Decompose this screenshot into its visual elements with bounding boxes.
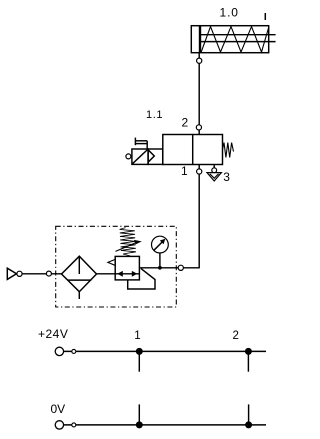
- port 1 label: [181, 164, 188, 178]
- svg-text:2: 2: [182, 116, 189, 130]
- node: source outlet: [17, 271, 22, 276]
- node: service unit outlet: [178, 265, 183, 270]
- wire stub node 2 down: [247, 351, 249, 371]
- port 3 label: [223, 170, 230, 184]
- junction node 2 on 0V: [245, 421, 252, 428]
- wire filter to regulator: [97, 273, 116, 275]
- pilot box: [148, 149, 163, 164]
- svg-text:2: 2: [233, 330, 239, 342]
- 0V terminal: [55, 421, 63, 429]
- +24V terminal inner: [72, 349, 76, 353]
- node: valve port 3: [212, 168, 217, 173]
- wire valve port 1 down: [198, 165, 200, 269]
- solenoid electrical terminal: [134, 138, 136, 146]
- 0V rail: [64, 424, 266, 426]
- pilot chevron: [149, 150, 155, 161]
- +24V label: [38, 327, 68, 341]
- gauge stem: [159, 253, 161, 268]
- 0V label: [51, 402, 66, 416]
- node 1 label: [134, 330, 140, 342]
- wire stub node 1 down: [138, 351, 140, 371]
- regulator spring: [120, 228, 136, 256]
- node: solenoid electrical connection: [126, 154, 131, 159]
- node: frame inlet: [46, 271, 51, 276]
- valve return spring: [223, 143, 234, 158]
- valve 1.1 label: [146, 109, 163, 121]
- svg-text:1.1: 1.1: [146, 109, 163, 121]
- port 2 label: [182, 116, 189, 130]
- node: cylinder port connection: [197, 58, 202, 63]
- regulator R1 body: [115, 256, 139, 280]
- svg-text:1: 1: [134, 330, 140, 342]
- svg-text:+24V: +24V: [38, 327, 68, 341]
- filter drain: [78, 292, 80, 299]
- valve V1 body: [163, 135, 223, 165]
- wire stub to node 1 on 0V: [138, 404, 140, 425]
- svg-text:0V: 0V: [51, 402, 66, 416]
- filter F1: [62, 256, 97, 292]
- wire stub to node 2 on 0V: [248, 404, 250, 425]
- wire to air service unit: [139, 267, 199, 269]
- tick mark above cylinder: [264, 13, 266, 20]
- solenoid diagonal: [133, 150, 148, 164]
- air service unit dashed frame: [56, 226, 177, 307]
- cylinder 1.0 label: [220, 6, 239, 20]
- 0V terminal inner: [72, 423, 76, 427]
- solenoid box: [132, 149, 148, 164]
- junction node 1 on 0V: [136, 421, 143, 428]
- svg-text:1.0: 1.0: [220, 6, 239, 20]
- junction node 2 on +24V: [245, 348, 252, 355]
- junction node 1 on +24V: [136, 348, 143, 355]
- port 3 stub: [213, 165, 215, 173]
- +24V terminal: [55, 347, 63, 355]
- return spring: [201, 27, 269, 52]
- pressure gauge G1: [152, 236, 169, 253]
- node 2 label: [233, 330, 239, 342]
- exhaust triangle port 3: [207, 173, 221, 181]
- node: valve port 2: [196, 125, 201, 130]
- piston: [199, 26, 201, 53]
- regulator internal flow arrows: [115, 273, 139, 275]
- wire cylinder to valve: [198, 53, 200, 134]
- cylinder C1 body: [191, 26, 268, 53]
- +24V rail: [64, 350, 266, 352]
- regulator relief triangle: [108, 259, 115, 265]
- svg-text:3: 3: [223, 170, 230, 184]
- regulator adjustment arrow: [116, 242, 138, 251]
- piston rod: [201, 34, 276, 36]
- junction: gauge tap: [158, 266, 162, 270]
- compressed air source: [7, 268, 16, 279]
- node: valve port 1: [197, 169, 202, 174]
- wire source to filter: [22, 273, 61, 275]
- svg-text:1: 1: [181, 164, 188, 178]
- regulator feedback loop: [128, 269, 155, 289]
